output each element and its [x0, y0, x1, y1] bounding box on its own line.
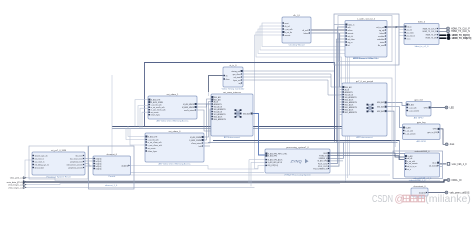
- svg-text:locked: locked: [380, 33, 385, 35]
- svg-text:mb_debug_sys_rst: mb_debug_sys_rst: [35, 163, 50, 166]
- svg-text:S_AXI_HP0: S_AXI_HP0: [268, 154, 277, 157]
- svg-text:ZYNQ: ZYNQ: [289, 159, 302, 164]
- svg-text:gpio_key: gpio_key: [417, 122, 427, 124]
- svg-text:interconnect_aresetn: interconnect_aresetn: [67, 163, 83, 166]
- svg-text:status: status: [380, 41, 385, 44]
- svg-text:S_AXI: S_AXI: [406, 126, 411, 129]
- svg-text:CSDN: CSDN: [372, 194, 393, 205]
- svg-text:AXI4-Stream to Video Out: AXI4-Stream to Video Out: [353, 57, 379, 60]
- svg-text:M02_ARESETN: M02_ARESETN: [345, 111, 358, 114]
- svg-text:rst_ps7_0_50M: rst_ps7_0_50M: [51, 149, 66, 152]
- svg-text:clk_in1: clk_in1: [285, 26, 290, 28]
- svg-text:HDMI_TX_CLK_N: HDMI_TX_CLK_N: [451, 31, 470, 33]
- svg-text:M02_AXI: M02_AXI: [377, 110, 384, 113]
- svg-text:Video Timing Controller: Video Timing Controller: [222, 88, 245, 91]
- svg-text:xlconstant_0: xlconstant_0: [413, 185, 426, 188]
- svg-text:axi_vdma_1: axi_vdma_1: [167, 94, 180, 96]
- svg-text:HDMI_TX_DN[2:0]: HDMI_TX_DN[2:0]: [452, 38, 472, 40]
- svg-text:gen_clken: gen_clken: [233, 74, 241, 76]
- svg-text:gpio_io_i[4:0]: gpio_io_i[4:0]: [427, 132, 438, 134]
- svg-text:v_axi4s_vid_out_2: v_axi4s_vid_out_2: [357, 17, 376, 20]
- svg-text:videoinHDMI_1_0: videoinHDMI_1_0: [409, 180, 426, 182]
- svg-text:AXI Interconnect: AXI Interconnect: [356, 136, 373, 139]
- svg-text:aresetn: aresetn: [348, 32, 354, 35]
- svg-text:M_AXI_GP0: M_AXI_GP0: [318, 160, 327, 163]
- svg-text:M_AXIS_MM2S: M_AXIS_MM2S: [182, 106, 195, 109]
- svg-text:pix_clk: pix_clk: [407, 29, 412, 31]
- svg-text:Concat: Concat: [108, 175, 115, 178]
- svg-text:vid_locked: vid_locked: [429, 165, 437, 167]
- svg-text:axi_resetn: axi_resetn: [148, 147, 156, 150]
- svg-text:(milianke): (milianke): [425, 194, 471, 205]
- svg-text:Clocking Wizard: Clocking Wizard: [289, 44, 306, 47]
- svg-text:AXI Interconnect: AXI Interconnect: [224, 136, 241, 139]
- svg-text:s_axi_aresetn: s_axi_aresetn: [405, 132, 416, 135]
- svg-text:vid_io_in_ce: vid_io_in_ce: [407, 166, 416, 168]
- svg-text:dout: dout: [450, 143, 455, 146]
- svg-text:locked: locked: [304, 33, 309, 35]
- svg-text:HDMI_TX_DP: HDMI_TX_DP: [426, 34, 438, 36]
- svg-text:vt_tc_0: vt_tc_0: [229, 64, 237, 67]
- svg-text:reset: reset: [285, 22, 289, 25]
- svg-text:HDMI_TX_CLK_N: HDMI_TX_CLK_N: [423, 31, 438, 33]
- svg-text:GPIO: GPIO: [433, 129, 438, 131]
- svg-text:vmix_hsync_i_0: vmix_hsync_i_0: [8, 184, 24, 186]
- svg-text:Constant: Constant: [415, 196, 424, 199]
- svg-text:s_axi_lite_aclk: s_axi_lite_aclk: [150, 103, 161, 106]
- svg-text:vtg_ce: vtg_ce: [348, 41, 353, 44]
- svg-text:aux_reset_in: aux_reset_in: [35, 160, 45, 163]
- svg-text:FMCL_IO: FMCL_IO: [452, 180, 462, 182]
- svg-text:peripheral_reset: peripheral_reset: [70, 160, 83, 163]
- svg-text:ext_reset_in: ext_reset_in: [35, 157, 44, 160]
- svg-text:AXI GPIO: AXI GPIO: [414, 117, 424, 120]
- svg-text:M_AXI_MM2S: M_AXI_MM2S: [183, 103, 195, 106]
- svg-text:HDMI_TX_CLK_P: HDMI_TX_CLK_P: [423, 28, 438, 30]
- svg-text:FCLK_RESET0_N: FCLK_RESET0_N: [313, 168, 328, 170]
- svg-text:vid_io_out: vid_io_out: [376, 26, 384, 29]
- svg-text:Processor System Reset: Processor System Reset: [46, 176, 70, 179]
- svg-text:IRQ_F2P[1:0]: IRQ_F2P[1:0]: [268, 165, 279, 167]
- svg-text:clk_out1: clk_out1: [302, 29, 308, 32]
- svg-text:aclk: aclk: [348, 27, 351, 29]
- svg-text:HDMI_TX_DN: HDMI_TX_DN: [426, 37, 438, 39]
- svg-text:overflow: overflow: [378, 35, 385, 38]
- svg-text:vid_clk: vid_clk: [348, 36, 353, 38]
- svg-text:dcm_locked: dcm_locked: [35, 167, 44, 169]
- svg-text:s_axis_s2mm_aclk: s_axis_s2mm_aclk: [147, 145, 162, 147]
- svg-text:HDMI_TX_D[2:0]: HDMI_TX_D[2:0]: [452, 35, 470, 37]
- svg-text:videoinHDMI_v1_0: videoinHDMI_v1_0: [413, 178, 432, 180]
- svg-text:pix_clkx5: pix_clkx5: [407, 32, 414, 34]
- svg-text:fsync_out: fsync_out: [233, 79, 241, 82]
- svg-text:vid_clken: vid_clken: [348, 39, 355, 41]
- svg-text:vmix_pclk_i_0: vmix_pclk_i_0: [10, 178, 24, 180]
- svg-text:s_axi_lite: s_axi_lite: [285, 31, 292, 34]
- svg-text:m_axi_s2mm_aclk: m_axi_s2mm_aclk: [148, 142, 162, 144]
- svg-text:irq: irq: [239, 82, 241, 85]
- svg-text:fifo_read: fifo_read: [378, 44, 385, 47]
- svg-text:M01_AXI: M01_AXI: [377, 105, 384, 108]
- svg-text:mm2s_introut: mm2s_introut: [184, 109, 195, 112]
- svg-text:sof_state: sof_state: [234, 76, 241, 79]
- svg-text:axi_vdma_0: axi_vdma_0: [169, 131, 182, 133]
- svg-text:AXI Video Direct Memory Access: AXI Video Direct Memory Access: [156, 120, 189, 123]
- svg-text:s_axi_aclk: s_axi_aclk: [284, 29, 292, 31]
- svg-text:hdmi_tx_v1_0: hdmi_tx_v1_0: [415, 45, 429, 48]
- svg-text:clken: clken: [226, 79, 230, 81]
- svg-text:mm2s_fsync: mm2s_fsync: [151, 114, 161, 116]
- svg-text:S_AXI: S_AXI: [409, 103, 414, 106]
- svg-text:fid: fid: [348, 45, 350, 47]
- svg-text:pix_clk_lck: pix_clk_lck: [407, 35, 415, 37]
- svg-text:processing_system7_0: processing_system7_0: [286, 146, 309, 149]
- svg-text:vtg_rdy: vtg_rdy: [379, 29, 385, 32]
- svg-text:AXI Video Direct Memory Access: AXI Video Direct Memory Access: [158, 163, 191, 166]
- svg-text:ZYNQ7 Processing System: ZYNQ7 Processing System: [284, 174, 311, 177]
- svg-text:hdmi_0: hdmi_0: [418, 21, 426, 23]
- svg-text:aclken: aclken: [348, 30, 353, 32]
- svg-text:aresetn: aresetn: [285, 34, 291, 37]
- svg-text:bus_struct_reset: bus_struct_reset: [70, 157, 83, 160]
- svg-text:vmix_hdb_1_0: vmix_hdb_1_0: [452, 164, 468, 166]
- svg-text:ps7_0_axi_periph: ps7_0_axi_periph: [356, 80, 374, 83]
- svg-text:In4[0:0]: In4[0:0]: [96, 168, 102, 170]
- svg-text:s_axi_aresetn: s_axi_aresetn: [408, 109, 419, 112]
- svg-text:peripheral_aresetn: peripheral_aresetn: [68, 166, 82, 169]
- svg-text:M00_AXI: M00_AXI: [377, 101, 384, 104]
- svg-text:vmix_data_i[15:0]: vmix_data_i[15:0]: [7, 181, 24, 184]
- svg-text:s_axi_aresetn: s_axi_aresetn: [407, 162, 418, 165]
- svg-text:s_axi_aclk: s_axi_aclk: [405, 130, 413, 132]
- svg-text:vid_io: vid_io: [407, 26, 411, 28]
- svg-text:slowest_sync_clk: slowest_sync_clk: [35, 154, 48, 157]
- svg-text:M_AXI_GP0_ACLK: M_AXI_GP0_ACLK: [268, 158, 284, 161]
- svg-text:S_AXI_HP0_ACLK: S_AXI_HP0_ACLK: [268, 161, 283, 164]
- svg-text:vid_io: vid_io: [432, 162, 436, 164]
- svg-text:dout[4:0]: dout[4:0]: [121, 164, 128, 167]
- svg-text:vtiming_out: vtiming_out: [231, 70, 240, 73]
- svg-text:s2mm_introut: s2mm_introut: [191, 142, 202, 145]
- svg-text:s2mm_fsync: s2mm_fsync: [148, 151, 158, 153]
- svg-text:xlconcat_0: xlconcat_0: [107, 153, 118, 156]
- svg-text:S_AXIS_S2MM: S_AXIS_S2MM: [189, 139, 201, 142]
- svg-text:M00_AXI: M00_AXI: [243, 112, 250, 115]
- svg-text:HDMI_TX_CLK_P: HDMI_TX_CLK_P: [451, 28, 470, 30]
- svg-text:GPIO: GPIO: [424, 107, 429, 109]
- svg-text:axi_mem_intercon: axi_mem_intercon: [223, 91, 242, 94]
- svg-text:mb_reset: mb_reset: [75, 154, 83, 157]
- svg-text:videoinHDMI_0: videoinHDMI_0: [415, 151, 431, 153]
- svg-text:rst_n: rst_n: [407, 168, 411, 171]
- svg-text:M00_ARESETN: M00_ARESETN: [214, 118, 227, 121]
- svg-text:s_axi_aclk: s_axi_aclk: [408, 107, 416, 109]
- svg-text:S_AXI_LITE: S_AXI_LITE: [148, 135, 158, 138]
- svg-text:rst_n: rst_n: [407, 37, 411, 40]
- svg-text:vmix_vsync_i_0: vmix_vsync_i_0: [8, 187, 24, 189]
- svg-text:underflow: underflow: [377, 38, 385, 41]
- svg-text:AXI GPIO: AXI GPIO: [416, 140, 426, 143]
- svg-text:clk_l_0: clk_l_0: [293, 15, 301, 17]
- svg-text:clk: clk: [226, 75, 228, 77]
- svg-text:M_AXI_S2MM: M_AXI_S2MM: [190, 136, 201, 139]
- svg-text:gpio_led: gpio_led: [414, 99, 423, 101]
- svg-text:xlconcat_1_0: xlconcat_1_0: [105, 184, 118, 187]
- svg-text:LED: LED: [450, 107, 455, 109]
